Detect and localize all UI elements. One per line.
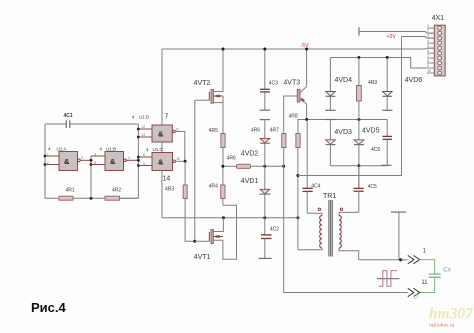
- gate U1:A: [45, 147, 91, 171]
- svg-text:4R6: 4R6: [227, 156, 236, 162]
- green mark: [414, 295, 418, 299]
- resistor 4R1: [59, 188, 75, 201]
- svg-text:&: &: [158, 130, 164, 139]
- svg-text:4R5: 4R5: [209, 128, 218, 134]
- diode 4VD5: [354, 120, 380, 189]
- svg-text:1: 1: [427, 24, 429, 28]
- svg-text:4: 4: [132, 114, 135, 119]
- capacitor 4C4: [303, 120, 321, 214]
- wire left feedback vertical: [44, 124, 47, 198]
- node gates output junction: [176, 160, 187, 163]
- svg-text:9: 9: [427, 64, 429, 68]
- svg-text:4VD2: 4VD2: [241, 151, 259, 158]
- svg-text:4: 4: [128, 156, 130, 160]
- diode 4VD1: [241, 166, 271, 218]
- svg-text:6: 6: [427, 49, 429, 53]
- wire -5V top rail: [162, 47, 434, 50]
- svg-text:4C4: 4C4: [311, 184, 320, 190]
- connector 4X1: [427, 15, 445, 76]
- label -5V: [301, 43, 310, 49]
- diode 4VD2: [241, 120, 270, 167]
- diode 4VD4: [326, 58, 353, 111]
- svg-text:4R4: 4R4: [209, 184, 218, 190]
- svg-text:11: 11: [176, 128, 180, 132]
- svg-text:+5V: +5V: [387, 34, 397, 40]
- wire to connector pin 1: [401, 259, 408, 261]
- svg-text:9: 9: [143, 162, 145, 166]
- svg-text:4C3: 4C3: [269, 81, 278, 87]
- wire +5V from connector: [298, 34, 402, 176]
- svg-text:4R2: 4R2: [112, 188, 121, 194]
- svg-text:&: &: [158, 158, 164, 167]
- svg-text:U1:B: U1:B: [106, 146, 116, 151]
- connector pin 11 chevron: [408, 280, 428, 297]
- resistor 4R4: [209, 166, 225, 205]
- svg-text:5: 5: [427, 44, 429, 48]
- svg-text:4R3: 4R3: [165, 186, 174, 192]
- svg-text:10: 10: [176, 157, 180, 161]
- resistor 4R5: [209, 128, 225, 167]
- svg-text:&: &: [64, 157, 70, 166]
- svg-text:radiokot.ru: radiokot.ru: [429, 323, 455, 328]
- svg-text:4VT3: 4VT3: [283, 80, 300, 87]
- diode 4VD6: [382, 58, 422, 111]
- svg-text:7: 7: [427, 54, 429, 58]
- wire +5V bottom rail: [162, 216, 299, 219]
- wire +5V to pin3: [402, 37, 435, 39]
- svg-text:TR1: TR1: [323, 193, 336, 200]
- svg-text:hm307: hm307: [429, 306, 474, 323]
- wire U1:C pin14 down to +5V rail: [162, 171, 170, 218]
- svg-text:4VD3: 4VD3: [334, 129, 352, 136]
- diode 4VD3: [326, 120, 359, 166]
- capacitor 4C2: [259, 218, 280, 259]
- svg-text:&: &: [110, 157, 116, 166]
- svg-text:1: 1: [423, 249, 427, 255]
- svg-text:4VT1: 4VT1: [194, 254, 211, 261]
- transistor 4VT1: [194, 205, 237, 261]
- resistor 4R7: [270, 127, 408, 292]
- svg-text:4X1: 4X1: [432, 15, 445, 22]
- svg-text:13: 13: [142, 133, 146, 137]
- wire middle row: [221, 165, 285, 168]
- svg-text:4VD5: 4VD5: [362, 128, 380, 135]
- gate U1:D: [132, 114, 179, 142]
- resistor 4R6 horizontal: [227, 156, 251, 169]
- svg-text:8: 8: [427, 59, 429, 63]
- node output pin1 terminal: [391, 212, 406, 261]
- svg-text:11: 11: [421, 280, 428, 286]
- svg-text:4VD6: 4VD6: [405, 77, 423, 84]
- svg-text:4C1: 4C1: [64, 113, 73, 119]
- watermark radiokot.ru: [429, 323, 455, 328]
- svg-text:14: 14: [163, 176, 171, 183]
- wire gate drive vertical 4VT2-4VT1: [193, 100, 196, 243]
- svg-text:5: 5: [95, 153, 97, 157]
- wire U1:D to U1:C power link: [161, 142, 163, 153]
- svg-text:1: 1: [47, 153, 49, 157]
- connector pin 1 chevron: [408, 249, 427, 264]
- svg-text:4C6: 4C6: [371, 147, 380, 153]
- svg-text:4VT2: 4VT2: [194, 80, 211, 87]
- wire bottom oscillator: [45, 197, 138, 200]
- wire terminal to pin2: [359, 27, 434, 35]
- svg-text:U1:D: U1:D: [139, 114, 150, 119]
- gate U1:B: [91, 146, 138, 170]
- caption Рис.4: [31, 300, 67, 315]
- capacitor 4C5: [354, 166, 377, 213]
- svg-text:7: 7: [165, 114, 169, 121]
- svg-text:4R9: 4R9: [368, 80, 377, 86]
- wire network bottom row: [359, 165, 387, 167]
- resistor 4R9: [357, 58, 378, 120]
- open gap plates left branch: [325, 110, 335, 119]
- svg-text:4: 4: [427, 39, 429, 43]
- capacitor Cx green: [420, 260, 452, 293]
- svg-text:4C2: 4C2: [270, 227, 279, 233]
- svg-text:8: 8: [143, 153, 145, 157]
- svg-text:10: 10: [427, 69, 431, 73]
- svg-text:U1:A: U1:A: [57, 147, 67, 152]
- resistor 4R2: [105, 188, 121, 201]
- svg-text:4VD4: 4VD4: [335, 77, 353, 84]
- svg-text:Cx: Cx: [443, 267, 452, 274]
- capacitor 4C6: [371, 120, 392, 166]
- svg-text:4R8: 4R8: [289, 114, 298, 120]
- svg-text:4C5: 4C5: [368, 184, 377, 190]
- capacitor 4C3: [260, 48, 278, 111]
- svg-text:3: 3: [81, 156, 83, 160]
- svg-text:4: 4: [100, 146, 103, 151]
- open gap plates above 4VD2: [260, 110, 270, 119]
- svg-text:6: 6: [95, 161, 97, 165]
- svg-text:U1:C: U1:C: [153, 147, 164, 152]
- resistor 4R8: [289, 114, 307, 250]
- transistor 4VT2: [194, 48, 225, 134]
- svg-text:12: 12: [142, 125, 146, 129]
- transformer TR1: [298, 193, 401, 260]
- wire collector node row: [305, 118, 387, 121]
- watermark hm307: [429, 306, 474, 323]
- wire U1:D output down join U1:C output: [175, 132, 185, 162]
- svg-text:2: 2: [427, 29, 429, 33]
- capacitor 4C1: [45, 113, 138, 128]
- svg-text:3: 3: [427, 34, 429, 38]
- gate U1:C: [138, 147, 180, 171]
- resistor 4R3: [165, 161, 195, 241]
- svg-text:4R1: 4R1: [66, 188, 75, 194]
- node U1:B output / U1:C U1:D inputs vertical: [120, 124, 140, 198]
- svg-text:4: 4: [146, 147, 149, 152]
- svg-text:4VD1: 4VD1: [241, 178, 259, 185]
- burst waveform symbol: [377, 271, 400, 287]
- svg-text:4R7: 4R7: [270, 127, 279, 133]
- svg-text:Рис.4: Рис.4: [31, 300, 67, 315]
- wire network top: [330, 56, 434, 68]
- svg-text:4: 4: [48, 147, 51, 152]
- svg-text:-5V: -5V: [301, 43, 310, 49]
- svg-text:2: 2: [47, 161, 49, 165]
- node U1:A output to U1:B inputs: [90, 156, 93, 198]
- label 4R6: [251, 127, 260, 133]
- node -5V rail to U1:D pin7: [162, 49, 169, 125]
- transistor 4VT3: [283, 48, 308, 134]
- svg-text:4R6: 4R6: [251, 127, 260, 133]
